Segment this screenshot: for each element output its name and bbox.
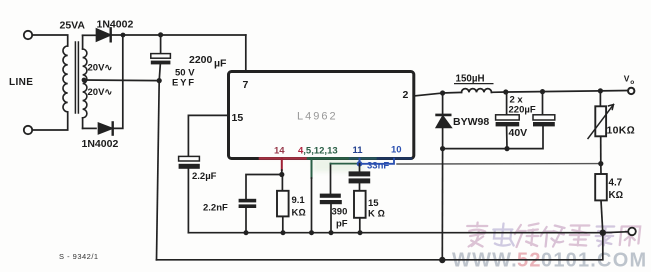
terminal Vo <box>628 88 634 94</box>
svg-text:S - 9342/1: S - 9342/1 <box>59 252 99 261</box>
junction node comp (blue) <box>357 161 363 167</box>
svg-text:33nF: 33nF <box>367 161 389 172</box>
watermark WWW.520101.COM <box>452 250 647 272</box>
transformer core <box>75 42 78 113</box>
wire D2 cathode up to + rail <box>113 35 123 128</box>
junction pin14 node <box>279 172 284 177</box>
wire secondary top to diode <box>83 34 97 36</box>
svg-text:KΩ: KΩ <box>292 208 306 219</box>
junction pot bottom <box>598 161 603 166</box>
resistor R1 9.1K <box>281 175 283 191</box>
wire secondary bottom to diode D2 <box>83 127 96 129</box>
svg-text:7: 7 <box>243 79 249 91</box>
svg-text:15: 15 <box>368 198 379 209</box>
svg-text:25VA: 25VA <box>60 20 86 32</box>
svg-text:20V∿: 20V∿ <box>88 87 113 98</box>
op IC U1 L4962 <box>229 72 414 159</box>
pins 4,5,12,13 ground wire <box>311 159 313 178</box>
svg-text:150µH: 150µH <box>456 74 485 85</box>
svg-text:,5,12,13: ,5,12,13 <box>303 146 337 157</box>
svg-text:2: 2 <box>403 89 409 101</box>
wire top terminal to transformer <box>32 35 67 46</box>
pin 14 wire (red) <box>281 159 283 170</box>
node line under caps <box>443 126 543 148</box>
junction center tap <box>82 78 87 83</box>
feedback long wire <box>397 163 601 165</box>
svg-text:20V∿: 20V∿ <box>88 63 113 74</box>
rail A component ground <box>188 232 602 234</box>
svg-text:2.2µF: 2.2µF <box>192 171 217 182</box>
svg-text:V: V <box>624 74 630 84</box>
svg-text:EYF: EYF <box>172 78 196 89</box>
wire C4 to node (green) <box>331 163 360 165</box>
inductor L1 150uH <box>443 91 462 94</box>
capacitor C3 2.2nF <box>239 199 257 203</box>
svg-text:40V: 40V <box>509 127 528 139</box>
center tap wire <box>83 79 159 82</box>
capacitor C6 220uF <box>506 92 508 115</box>
tint pink inside IC bottom left <box>258 142 340 158</box>
pin 15 wire to C2 <box>188 115 228 156</box>
junction C1 minus <box>157 78 162 83</box>
tint cyan inside IC bottom right <box>340 140 414 157</box>
resistor R3 4.7K <box>600 164 602 174</box>
svg-text:15: 15 <box>232 112 244 124</box>
resistor R2 15K <box>354 191 366 218</box>
wire diode to node <box>111 34 246 36</box>
tint green below IC near pin 11 <box>313 158 363 172</box>
node rectified + <box>158 32 163 37</box>
svg-text:390: 390 <box>332 207 348 218</box>
capacitor C5 33nF <box>359 164 361 172</box>
pin 2 output wire <box>414 93 443 96</box>
wire node to pin 10 (blue) <box>360 159 395 164</box>
wire down into IC pin 7 <box>245 35 247 72</box>
potentiometer P1 10K <box>599 91 601 106</box>
transformer T1 primary winding <box>63 46 68 112</box>
capacitor C4 390pF <box>330 164 332 194</box>
svg-text:1N4002: 1N4002 <box>82 138 119 150</box>
junction bottom-diode branch <box>121 33 126 38</box>
svg-text:220µF: 220µF <box>509 105 536 116</box>
svg-text:10: 10 <box>391 145 402 156</box>
junction rail A dots <box>244 230 249 235</box>
terminal output minus <box>628 228 636 236</box>
capacitor C7 220uF <box>542 92 544 115</box>
junction pin2 node <box>440 90 445 95</box>
svg-text:2200: 2200 <box>189 54 213 66</box>
wire L1 to Vo <box>506 91 628 93</box>
IC bottom edge tints <box>260 157 308 160</box>
pin 11 wire (blue) <box>359 159 361 164</box>
svg-text:14: 14 <box>274 146 285 157</box>
diode D2 1N4002 bottom <box>99 123 113 133</box>
svg-text:10KΩ: 10KΩ <box>607 125 636 137</box>
terminal LINE top <box>24 31 32 39</box>
svg-text:LINE: LINE <box>9 77 33 88</box>
wire bottom terminal to transformer <box>32 112 67 130</box>
diode D3 BYW98 <box>442 93 444 114</box>
capacitor C1 2200uF <box>160 35 162 54</box>
wire node to C3 <box>246 175 282 199</box>
svg-text:11: 11 <box>353 145 364 156</box>
svg-text:1N4002: 1N4002 <box>97 19 134 31</box>
wire ground drop left <box>157 81 160 260</box>
svg-text:µF: µF <box>214 58 227 70</box>
capacitor C2 2.2uF <box>179 156 200 161</box>
svg-text:pF: pF <box>336 219 348 230</box>
watermark 家电维修资料网 <box>465 223 641 248</box>
svg-text:K Ω: K Ω <box>368 209 385 220</box>
junction rail B / BYW98 branch <box>439 257 445 263</box>
svg-text:2.2nF: 2.2nF <box>203 203 228 214</box>
terminal LINE bottom <box>24 126 32 134</box>
svg-text:4.7: 4.7 <box>609 178 623 189</box>
diode D1 1N4002 top <box>97 29 111 41</box>
transformer T1 secondary winding <box>82 35 84 49</box>
rail B bottom ground <box>157 233 603 260</box>
svg-text:o: o <box>630 79 634 86</box>
svg-text:BYW98: BYW98 <box>453 116 489 128</box>
svg-text:KΩ: KΩ <box>609 190 624 201</box>
svg-text:9.1: 9.1 <box>292 195 306 206</box>
svg-text:L4962: L4962 <box>297 111 338 123</box>
